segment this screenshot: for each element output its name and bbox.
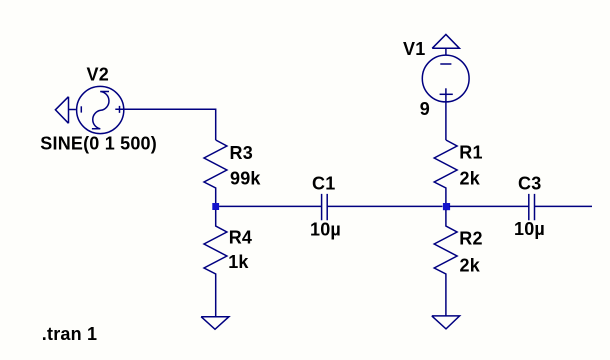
svg-text:C3: C3 (518, 174, 541, 194)
svg-text:2k: 2k (460, 255, 481, 275)
wire from C1 right plate to node N2 (327, 205, 442, 207)
node N2 junction square (R1/R2/C1/C3) (443, 203, 450, 210)
capacitor C1 (322, 194, 328, 220)
wire from C3 right plate to output (dangling end) (535, 205, 593, 207)
ground flag above V1 (rotated 180, pointing up) (432, 35, 459, 56)
svg-text:R3: R3 (230, 143, 253, 163)
ground flag below R4 (201, 317, 229, 330)
svg-text:10µ: 10µ (514, 219, 545, 239)
ground flag at V2 negative terminal (rotated, pointing left) (55, 97, 76, 124)
svg-text:9: 9 (420, 99, 430, 119)
wire from node N1 to C1 left plate (219, 205, 322, 207)
svg-text:.tran 1: .tran 1 (42, 324, 97, 344)
voltage source V1 (DC 9V) (422, 55, 469, 102)
svg-text:R1: R1 (459, 143, 482, 163)
resistor R4 (204, 210, 227, 317)
capacitor C3 (529, 194, 535, 220)
svg-text:99k: 99k (230, 168, 261, 188)
svg-text:SINE(0 1 500): SINE(0 1 500) (40, 134, 157, 154)
ground flag below R2 (432, 316, 460, 329)
svg-text:C1: C1 (312, 174, 335, 194)
wire from V1 plus terminal through circle down to R1 top (445, 88, 447, 140)
svg-text:2k: 2k (460, 168, 481, 188)
resistor R1 (434, 140, 457, 203)
svg-text:R2: R2 (459, 228, 482, 248)
voltage source V2 (sine signal source) (77, 86, 125, 133)
node N1 junction square (R3/R4/C1) (212, 203, 219, 210)
resistor R3 (204, 140, 227, 203)
wire from V2 plus terminal to R3 top (125, 109, 216, 140)
svg-text:1k: 1k (228, 252, 249, 272)
wire from node N2 to C3 left plate (449, 205, 529, 207)
svg-text:V1: V1 (403, 39, 425, 59)
resistor R2 (434, 210, 457, 316)
svg-text:V2: V2 (87, 65, 109, 85)
svg-text:10µ: 10µ (310, 220, 341, 240)
svg-text:R4: R4 (229, 227, 252, 247)
